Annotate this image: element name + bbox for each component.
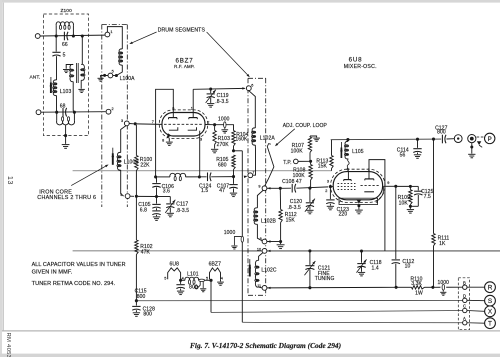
resistor R103 <box>214 126 216 130</box>
resistor R100 <box>135 125 137 156</box>
drum contact 1 <box>105 32 110 37</box>
wire transformer left bottom <box>73 82 74 113</box>
svg-text:9: 9 <box>258 185 260 189</box>
connector P circle <box>485 133 495 143</box>
node top-1 <box>55 34 58 37</box>
svg-text:X: X <box>488 309 493 316</box>
wire to C117 <box>157 196 171 198</box>
feedthrough 1000 output <box>434 286 440 288</box>
capacitor C119 trimmer <box>210 89 212 93</box>
capacitor C124 (series) <box>207 173 209 182</box>
iron core slug of L103 <box>50 77 52 83</box>
wire B+ tank bus y251 left <box>73 250 243 252</box>
svg-text:5: 5 <box>112 69 114 73</box>
svg-text:11: 11 <box>257 284 261 288</box>
coil Z100 top (arch) <box>55 26 57 36</box>
svg-text:66: 66 <box>62 42 68 48</box>
svg-text:1: 1 <box>110 30 112 34</box>
svg-text:L100A: L100A <box>120 76 136 82</box>
arrow into contact7 <box>244 176 248 179</box>
svg-text:15K: 15K <box>286 217 296 223</box>
ground contact8 <box>280 242 282 245</box>
ground center tap <box>65 136 67 144</box>
filament 6BZ7 <box>210 268 221 279</box>
transformer Z100 core <box>76 63 78 83</box>
svg-text:R: R <box>488 285 493 292</box>
svg-text:15K: 15K <box>318 164 328 170</box>
svg-text:6U8: 6U8 <box>349 57 363 64</box>
wire C124 to C107 <box>211 176 233 178</box>
capacitor C123 <box>329 187 331 200</box>
resistor R105 <box>232 155 235 170</box>
node pin2 <box>213 123 216 126</box>
svg-text:220: 220 <box>339 211 348 217</box>
wire contact8 right <box>267 241 279 243</box>
svg-text:7: 7 <box>339 199 341 203</box>
svg-text:8: 8 <box>162 138 164 142</box>
svg-text:ALL CAPACITOR VALUES IN TUNE: ALL CAPACITOR VALUES IN TUNER <box>32 262 126 268</box>
svg-text:1000: 1000 <box>218 117 230 123</box>
svg-text:Fig. 7. V-14170-2 Schematic: Fig. 7. V-14170-2 Schematic Diagram (Cod… <box>190 341 341 350</box>
tube 6U8 pentode plate <box>344 179 352 181</box>
iron core slug of L102C <box>249 259 251 265</box>
wire 6BZ7 pin2 right <box>205 124 213 126</box>
node R102 bottom <box>135 299 138 302</box>
wire 6BZ7 pin1 plate to drum contact 6 <box>192 89 194 117</box>
node 6BZ7 pin5 <box>209 279 212 282</box>
capacitor C121 fine tuning trimmer <box>309 251 311 265</box>
drum strip OSC bottom edge <box>248 294 266 296</box>
svg-text:3: 3 <box>327 179 329 183</box>
svg-text:4: 4 <box>221 276 223 280</box>
jack2 key arrow <box>477 141 481 145</box>
resistor R110 (series) <box>412 286 425 289</box>
wire grid line y139.5 <box>331 138 442 141</box>
svg-text:3.6: 3.6 <box>163 188 170 194</box>
tube 6U8 pentode grids (dashes) <box>338 183 356 185</box>
transformer Z100 primary winding <box>70 64 73 81</box>
drum contact 11 <box>262 286 267 291</box>
bottom page edge band <box>0 354 500 357</box>
wire+ground transformer right bottom <box>80 80 82 89</box>
capacitor C127 (series) <box>441 135 443 144</box>
svg-text:P: P <box>488 136 492 143</box>
node R111 top <box>432 138 435 141</box>
svg-text:9: 9 <box>387 181 389 185</box>
tube 6U8 envelope <box>333 172 382 200</box>
tube 6BZ7 envelope <box>162 113 205 137</box>
iron core slug of L105 <box>340 142 342 148</box>
node pin9 <box>394 185 397 188</box>
resistor R104 <box>232 131 235 146</box>
drum strip RF top edge <box>102 24 128 26</box>
node C120 top <box>308 187 311 190</box>
drum strip OSC dash-dot right <box>265 78 267 295</box>
coupling loop wire <box>265 144 274 186</box>
dashes jack2 to P <box>477 136 480 138</box>
wire bus to terminal A <box>242 321 462 323</box>
capacitor C120 trimmer <box>309 188 311 202</box>
capacitor C117 trimmer <box>169 197 171 204</box>
drum strip OSC top edge <box>248 77 266 79</box>
svg-text:10: 10 <box>405 264 411 270</box>
terminal D <box>463 298 467 302</box>
svg-text:L102A: L102A <box>260 135 276 141</box>
terminal A <box>463 321 467 325</box>
svg-text:R.F. AMP.: R.F. AMP. <box>174 64 195 69</box>
wire cap5 to L103 <box>56 56 58 80</box>
svg-text:.8-3.5: .8-3.5 <box>176 208 190 214</box>
wire bus to terminal D <box>137 299 463 301</box>
node grid2 junction <box>135 195 138 198</box>
wire AGC line y171 <box>73 170 332 172</box>
wire center tap <box>65 125 67 135</box>
terminal dashed box <box>458 278 469 330</box>
wire contact3 to node <box>129 123 134 125</box>
inductor L102B <box>257 191 263 208</box>
top page edge band <box>0 0 500 3</box>
tube 6BZ7 pin8 cathode arrow <box>167 133 171 138</box>
drum strip RF dash-dot right <box>126 25 128 208</box>
feedthrough 800 on L101 line <box>198 279 201 281</box>
svg-text:680: 680 <box>218 162 227 168</box>
drum contact 7 <box>248 173 253 178</box>
resistor R108 <box>310 163 312 165</box>
tube 6U8 triode plate <box>365 178 374 180</box>
drum contact 5 <box>108 73 113 78</box>
wire 6BZ7 pin3 cathode down <box>199 131 201 177</box>
feedthrough 1000 on pin2 line <box>224 122 226 128</box>
node grid 6BZ7 <box>134 122 137 125</box>
left page edge band <box>0 0 2 357</box>
node R104 bottom <box>232 149 235 152</box>
wire to cap 5 <box>55 36 57 52</box>
tube 6BZ7 plate A <box>169 117 178 119</box>
node C121 top <box>308 249 311 252</box>
resistor R112 <box>279 190 281 210</box>
node top-2 <box>72 34 75 37</box>
socket circle T <box>485 318 496 329</box>
inductor L102A <box>252 128 255 145</box>
svg-text:56: 56 <box>400 152 406 158</box>
svg-text:Z100: Z100 <box>61 8 73 14</box>
svg-text:1000: 1000 <box>224 230 236 236</box>
node top-3 <box>81 34 84 37</box>
wire 6U8 pin6 squiggle <box>347 159 349 172</box>
wire contact5 left + ground <box>101 76 108 78</box>
wire antenna top <box>40 34 105 37</box>
wire vertical feed x242 (R104 junction down to terminal A bend) <box>241 151 243 322</box>
wire node4 to C105 node <box>138 195 157 197</box>
capacitor C108 (series) <box>291 184 293 193</box>
inductor L100B <box>117 152 120 170</box>
tube 6U8 triode grid (dashes) <box>361 185 380 187</box>
connector jack 1 <box>454 135 462 143</box>
wire B+ tank bus y251 right <box>242 250 500 252</box>
node C119 tap <box>209 87 212 90</box>
arrow iron-core to L100B slug <box>71 165 107 185</box>
wire contact9 right <box>267 187 279 189</box>
svg-text:1K: 1K <box>439 241 446 247</box>
svg-text:C108 47: C108 47 <box>282 179 302 185</box>
wire pin2 to R104 bend <box>216 125 234 131</box>
svg-text:22K: 22K <box>140 163 150 169</box>
node bot-1 <box>55 111 58 114</box>
ground R109/C125 <box>409 206 411 209</box>
capacitor C112 <box>395 186 397 259</box>
svg-text:800: 800 <box>437 130 446 136</box>
svg-text:TUNING: TUNING <box>315 276 335 282</box>
node C121 bottom <box>308 286 311 289</box>
node C112 bottom <box>395 286 398 289</box>
capacitor C128 <box>135 301 137 306</box>
svg-text:4: 4 <box>120 193 122 197</box>
wire A-T <box>467 322 485 324</box>
coil plate peaking <box>170 173 186 177</box>
wire R104 node to x242 <box>235 150 242 152</box>
wire antenna bottom <box>41 111 106 114</box>
tube 6U8 cathode arrow <box>356 199 361 204</box>
inductor L101 <box>182 279 185 281</box>
svg-text:1.5: 1.5 <box>201 188 208 194</box>
wire 6U8 pin9 out <box>378 186 384 200</box>
node R109 bottom <box>409 205 412 208</box>
tube 6U8 dashed envelope <box>331 169 385 202</box>
node 6U8 cathode <box>357 204 360 207</box>
drum contact 2 <box>106 109 111 114</box>
svg-text:2: 2 <box>207 120 209 124</box>
left margin rule <box>2 3 4 331</box>
wire TP to node <box>298 160 309 162</box>
coil Z100 bottom (3 humps down) <box>56 112 58 120</box>
svg-text:S: S <box>488 298 492 305</box>
capacitor C106 <box>156 177 158 183</box>
node cathode join <box>198 175 201 178</box>
node R110 right <box>431 286 434 289</box>
inductor L102C <box>259 253 263 261</box>
terminal C <box>463 308 467 312</box>
svg-text:T: T <box>488 321 492 328</box>
socket circle X <box>485 306 496 317</box>
wire 6BZ7 pin6 plate up-left-down <box>156 89 174 177</box>
svg-text:800: 800 <box>143 312 152 318</box>
node C105 junction <box>155 195 158 198</box>
wire D-S <box>467 299 485 301</box>
drum contact 6 <box>246 86 251 91</box>
tube 6BZ7 dashed envelope <box>159 110 207 139</box>
wire to C125 <box>412 185 419 187</box>
drum strip RF dash-dot left <box>101 25 103 208</box>
svg-text:TUNER RETMA CODE NO. 294.: TUNER RETMA CODE NO. 294. <box>32 281 116 287</box>
transformer T-Z100 right winding lead <box>81 36 83 65</box>
capacitor C115 <box>180 280 182 284</box>
svg-text:10K: 10K <box>399 200 409 206</box>
svg-text:270K: 270K <box>217 142 230 148</box>
wire 6U8 pin1 interior lead <box>368 169 370 179</box>
svg-text:L101: L101 <box>187 272 199 278</box>
svg-text:L102B: L102B <box>261 218 277 224</box>
bottom border rule <box>2 330 500 332</box>
resistor R107 with ground <box>309 136 311 137</box>
antenna terminal bottom <box>36 110 41 115</box>
svg-text:L102C: L102C <box>261 267 277 273</box>
tube 6BZ7 cathode B <box>188 127 197 130</box>
resistor R109 <box>409 188 411 190</box>
svg-text:100K: 100K <box>293 173 306 179</box>
svg-text:160K: 160K <box>235 137 248 143</box>
tube 6U8 triode cathode <box>364 191 374 193</box>
node contact8 gnd <box>279 240 282 243</box>
inductor L105 <box>345 141 348 159</box>
wire L102A bottom to contact7 <box>253 145 256 175</box>
svg-text:3: 3 <box>200 138 202 142</box>
svg-text:8: 8 <box>260 237 262 241</box>
svg-text:.8-3.5: .8-3.5 <box>288 205 302 211</box>
connector jack 2 <box>468 135 476 143</box>
wire C-X <box>467 310 485 313</box>
svg-text:47: 47 <box>219 188 225 194</box>
wire contact6 to L102A <box>249 91 256 128</box>
transformer Z100 secondary winding <box>81 64 84 80</box>
node C114 top <box>416 138 419 141</box>
svg-text:D: D <box>463 294 466 299</box>
wire osc grid box <box>369 160 385 251</box>
drum contact 9 <box>262 186 267 191</box>
node TP <box>309 160 312 163</box>
svg-text:A: A <box>463 316 466 321</box>
terminal B <box>463 285 467 289</box>
svg-text:6BZ7: 6BZ7 <box>209 261 221 267</box>
svg-text:13: 13 <box>6 176 13 185</box>
wire contact3 to L100B <box>121 126 126 153</box>
wire contact1 to L100A <box>107 27 122 49</box>
svg-text:5: 5 <box>63 52 66 58</box>
svg-text:1000: 1000 <box>438 280 450 286</box>
capacitor 68 (series) <box>62 108 64 117</box>
filament 6U8 <box>168 268 181 279</box>
svg-text:ADJ. COUP. LOOP: ADJ. COUP. LOOP <box>283 123 328 129</box>
svg-text:47K: 47K <box>141 249 151 255</box>
wire+ground transformer left top <box>66 65 73 69</box>
svg-text:C117: C117 <box>176 201 188 207</box>
node bot-2 <box>73 111 76 114</box>
capacitor C125 <box>417 186 419 190</box>
ground jack2 <box>471 143 473 154</box>
svg-text:7: 7 <box>152 120 154 124</box>
svg-text:2: 2 <box>325 189 327 193</box>
node center tap <box>64 134 67 137</box>
node plate line left <box>154 175 157 178</box>
svg-text:CHANNELS 2 THRU 6: CHANNELS 2 THRU 6 <box>37 195 96 201</box>
svg-text:5: 5 <box>206 276 208 280</box>
svg-text:7: 7 <box>252 170 254 174</box>
svg-text:6U8: 6U8 <box>170 261 180 267</box>
node C107 top <box>232 175 235 178</box>
wire contact4 to node <box>130 195 134 197</box>
svg-text:1.4: 1.4 <box>372 266 379 272</box>
svg-text:T.P.: T.P. <box>283 160 291 166</box>
drum strip OSC dash-dot left <box>247 78 249 295</box>
drum contact 4 <box>125 194 130 199</box>
capacitor 5 <box>52 51 60 53</box>
iron core slug of L100B <box>112 148 114 154</box>
arrow coup-loop <box>276 129 295 145</box>
svg-text:6.8: 6.8 <box>140 207 147 213</box>
svg-text:100K: 100K <box>291 148 304 154</box>
Z100 dashed box <box>44 14 89 136</box>
svg-text:68: 68 <box>60 103 66 109</box>
svg-text:B: B <box>463 280 466 285</box>
svg-text:3: 3 <box>121 119 123 123</box>
svg-text:1W: 1W <box>415 290 423 296</box>
drum contact 3 <box>124 121 129 126</box>
wire contact11 line right <box>267 286 395 289</box>
node 6U8 pin4 <box>179 279 182 282</box>
leader right to OSC strip <box>207 32 249 76</box>
tube 6BZ7 plate B <box>189 117 198 119</box>
svg-text:RM 4053: RM 4053 <box>5 333 11 357</box>
leader left to RF strip <box>131 32 157 43</box>
ground 6U8 cathode <box>358 205 360 210</box>
ground 6BZ7 pin8 <box>168 138 170 141</box>
tube 6BZ7 grid dash-line <box>164 123 203 125</box>
svg-text:10: 10 <box>257 247 261 251</box>
svg-text:.8-3.5: .8-3.5 <box>215 99 229 105</box>
resistor R113 <box>331 140 333 156</box>
drum contact 10 <box>262 249 267 254</box>
wire B-R <box>467 286 485 288</box>
tube 6BZ7 cathode A <box>169 127 178 130</box>
svg-text:C: C <box>463 304 466 309</box>
wire pin9 to R109 <box>397 185 409 187</box>
capacitor 66 (series) <box>63 32 65 41</box>
svg-text:L103: L103 <box>60 89 72 95</box>
node R112 top <box>279 187 282 190</box>
svg-text:6: 6 <box>251 84 253 88</box>
wire L100B bottom to contact4 <box>121 170 124 196</box>
wire mixer node to tube <box>332 186 334 188</box>
resistor R102 <box>135 196 137 240</box>
wire heater drop from 6BZ7 pin5 <box>210 282 212 313</box>
wire node to 6BZ7 pin7 <box>137 123 162 126</box>
svg-text:3.3K: 3.3K <box>411 281 422 287</box>
svg-text:2: 2 <box>112 107 114 111</box>
svg-text:DRUM SEGMENTS: DRUM SEGMENTS <box>158 27 206 33</box>
capacitor C105 <box>156 197 158 204</box>
node R109 top <box>409 185 412 188</box>
wire coil to C124 <box>186 176 207 178</box>
node L100A bottom <box>115 74 118 77</box>
svg-text:ANT.: ANT. <box>30 74 41 80</box>
wire C108 to mixer <box>296 187 328 188</box>
socket circle S <box>485 295 496 306</box>
svg-text:1: 1 <box>191 107 193 111</box>
wire plate load line <box>156 176 170 178</box>
svg-text:L105: L105 <box>352 149 364 155</box>
wire bus to terminal C <box>211 311 463 313</box>
inductor L103 <box>53 80 56 96</box>
svg-text:8: 8 <box>376 200 378 204</box>
socket circle R <box>485 282 496 293</box>
inductor L100A <box>119 49 122 65</box>
node mixer grid <box>329 185 332 188</box>
wire L103 bottom <box>56 96 58 113</box>
wire contact5 to node <box>113 75 115 77</box>
svg-text:800: 800 <box>137 294 146 300</box>
svg-text:5: 5 <box>164 276 166 280</box>
svg-text:800: 800 <box>189 284 198 290</box>
drum contact 8 <box>262 239 267 244</box>
